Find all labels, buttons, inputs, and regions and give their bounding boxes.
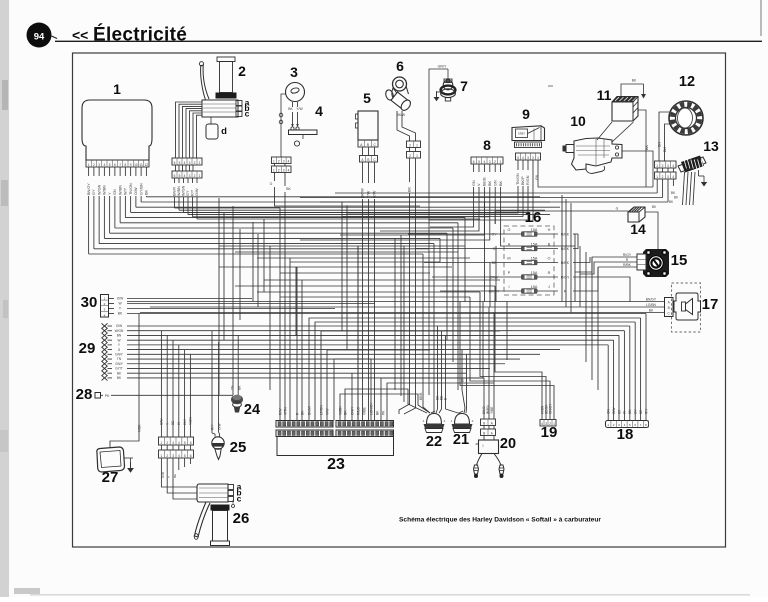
svg-text:BK: BK	[286, 187, 291, 191]
svg-text:11: 11	[597, 87, 612, 103]
svg-text:GY/BN: GY/BN	[139, 183, 143, 195]
svg-text:8: 8	[483, 137, 491, 153]
svg-text:R: R	[548, 271, 551, 275]
svg-text:W/GN: W/GN	[115, 329, 124, 333]
svg-text:GREY: GREY	[518, 132, 526, 136]
svg-text:4: 4	[184, 161, 186, 165]
svg-text:3: 3	[189, 174, 191, 178]
svg-text:4: 4	[184, 174, 186, 178]
svg-text:B: B	[367, 158, 369, 162]
svg-text:BN/R: BN/R	[173, 187, 177, 196]
svg-text:3: 3	[98, 163, 100, 167]
svg-text:BK: BK	[632, 79, 637, 83]
svg-text:H: H	[548, 228, 551, 232]
svg-text:15A: 15A	[531, 285, 538, 289]
svg-text:3: 3	[172, 454, 174, 458]
svg-text:4: 4	[288, 168, 290, 172]
svg-text:Y/W: Y/W	[296, 107, 303, 111]
svg-text:1: 1	[199, 161, 201, 165]
svg-text:BK: BK	[408, 186, 412, 192]
svg-text:7: 7	[460, 78, 468, 94]
svg-text:17: 17	[702, 296, 719, 313]
svg-text:Y/GN: Y/GN	[189, 417, 193, 425]
svg-text:1: 1	[161, 441, 163, 445]
svg-text:2: 2	[662, 164, 664, 168]
svg-text:BE/B: BE/B	[419, 392, 423, 400]
svg-text:G: G	[508, 228, 511, 232]
svg-text:G: G	[616, 207, 619, 211]
svg-text:5: 5	[179, 161, 181, 165]
svg-text:BN/GY: BN/GY	[646, 298, 657, 302]
svg-text:O/W: O/W	[161, 472, 165, 478]
svg-text:23: 23	[327, 456, 345, 473]
svg-text:1: 1	[553, 422, 555, 426]
svg-text:1: 1	[656, 164, 658, 168]
svg-text:3: 3	[527, 156, 529, 160]
svg-text:15: 15	[671, 252, 688, 269]
svg-text:W/GN: W/GN	[97, 184, 101, 195]
svg-text:22: 22	[426, 434, 442, 450]
svg-text:BK: BK	[645, 144, 649, 150]
svg-text:BN/GY: BN/GY	[87, 183, 91, 195]
svg-text:V/BE: V/BE	[362, 407, 366, 415]
svg-text:GN/Y: GN/Y	[115, 362, 124, 366]
svg-text:2: 2	[409, 143, 411, 147]
svg-text:R/BK: R/BK	[623, 263, 632, 267]
svg-text:1: 1	[161, 454, 163, 458]
svg-text:6: 6	[114, 163, 116, 167]
svg-text:W/GN: W/GN	[182, 185, 186, 196]
svg-text:16: 16	[525, 209, 542, 226]
svg-text:Électricité: Électricité	[93, 24, 187, 46]
svg-text:1: 1	[537, 156, 539, 160]
svg-text:GY/T: GY/T	[115, 367, 122, 371]
svg-text:3: 3	[489, 160, 491, 164]
svg-text:O: O	[270, 182, 273, 186]
svg-text:5: 5	[184, 441, 186, 445]
svg-text:3: 3	[667, 175, 669, 179]
svg-text:25: 25	[230, 439, 247, 456]
svg-text:BK: BK	[375, 410, 379, 415]
svg-text:TN/GN: TN/GN	[129, 183, 133, 195]
svg-text:5: 5	[179, 174, 181, 178]
svg-text:R/GY: R/GY	[623, 253, 632, 257]
svg-text:11: 11	[139, 163, 143, 167]
svg-text:6: 6	[190, 441, 192, 445]
svg-text:I: I	[508, 285, 509, 289]
svg-text:10: 10	[570, 113, 586, 129]
svg-text:O/W: O/W	[160, 419, 164, 425]
svg-text:4: 4	[288, 159, 290, 163]
svg-text:BK: BK	[145, 189, 149, 195]
svg-text:6: 6	[174, 161, 176, 165]
svg-text:c: c	[237, 494, 242, 504]
svg-text:5: 5	[109, 163, 111, 167]
svg-text:28: 28	[76, 386, 93, 403]
svg-text:5: 5	[478, 160, 480, 164]
svg-text:GN: GN	[472, 180, 476, 186]
svg-text:W/BN: W/BN	[103, 185, 107, 195]
svg-text:BK/W: BK/W	[397, 113, 405, 117]
svg-text:12: 12	[679, 74, 695, 90]
svg-text:O/W: O/W	[117, 297, 124, 301]
svg-text:<<: <<	[72, 27, 88, 43]
svg-text:9: 9	[130, 163, 132, 167]
svg-text:2: 2	[194, 161, 196, 165]
svg-text:R/GN: R/GN	[526, 175, 530, 185]
svg-text:P: P	[508, 271, 511, 275]
svg-text:20: 20	[500, 436, 516, 452]
svg-text:c: c	[245, 109, 250, 119]
svg-text:29: 29	[79, 340, 96, 357]
svg-text:BK: BK	[658, 141, 662, 147]
svg-text:2: 2	[166, 441, 168, 445]
svg-text:B: B	[367, 143, 369, 147]
svg-text:4: 4	[672, 164, 674, 168]
svg-text:2: 2	[194, 174, 196, 178]
svg-text:GY: GY	[186, 190, 190, 196]
svg-text:4: 4	[522, 156, 524, 160]
svg-text:15A: 15A	[531, 228, 538, 232]
svg-text:O/W: O/W	[195, 188, 199, 196]
svg-text:BE: BE	[171, 421, 175, 425]
svg-text:2: 2	[549, 422, 551, 426]
svg-text:8: 8	[124, 163, 126, 167]
svg-text:O: O	[548, 257, 551, 261]
svg-text:TN/GN: TN/GN	[516, 173, 520, 185]
svg-text:1: 1	[499, 160, 501, 164]
svg-text:10: 10	[134, 163, 138, 167]
svg-text:BK/P: BK/P	[521, 176, 525, 185]
svg-text:W/BN: W/BN	[177, 186, 181, 196]
svg-text:TN: TN	[117, 357, 122, 361]
svg-text:7: 7	[119, 163, 121, 167]
svg-text:3: 3	[189, 161, 191, 165]
svg-text:GY: GY	[92, 189, 96, 195]
svg-text:2: 2	[662, 175, 664, 179]
svg-text:W/BN: W/BN	[118, 185, 122, 195]
svg-text:4: 4	[672, 175, 674, 179]
svg-text:19: 19	[541, 424, 558, 441]
svg-text:5: 5	[363, 90, 371, 106]
svg-text:2: 2	[409, 154, 411, 158]
svg-text:6: 6	[174, 174, 176, 178]
svg-text:BK: BK	[288, 107, 293, 111]
svg-text:GN/Y: GN/Y	[438, 65, 447, 69]
svg-text:d: d	[221, 126, 227, 137]
svg-text:3: 3	[283, 159, 285, 163]
svg-text:O/W: O/W	[134, 187, 138, 195]
svg-text:15A: 15A	[531, 271, 538, 275]
svg-text:LG/BN: LG/BN	[646, 303, 657, 307]
svg-text:1: 1	[273, 159, 275, 163]
svg-text:2: 2	[494, 160, 496, 164]
svg-text:94: 94	[34, 32, 45, 43]
svg-text:2: 2	[238, 63, 246, 79]
svg-text:13: 13	[703, 138, 719, 154]
svg-text:4: 4	[483, 160, 485, 164]
svg-text:W/Y: W/Y	[124, 187, 128, 195]
svg-text:BN: BN	[117, 334, 122, 338]
svg-text:BE/B: BE/B	[483, 177, 487, 186]
svg-text:12: 12	[145, 163, 149, 167]
svg-text:4: 4	[103, 163, 105, 167]
svg-text:M: M	[507, 257, 510, 261]
svg-text:1: 1	[113, 81, 121, 97]
svg-text:6: 6	[473, 160, 475, 164]
svg-text:1: 1	[273, 168, 275, 172]
svg-text:3: 3	[172, 441, 174, 445]
svg-text:W: W	[177, 422, 181, 425]
svg-text:1: 1	[416, 143, 418, 147]
svg-text:R/Y: R/Y	[191, 189, 195, 196]
svg-text:W/Y: W/Y	[183, 418, 187, 425]
svg-text:BK: BK	[663, 146, 667, 152]
svg-text:BK: BK	[499, 180, 503, 186]
svg-text:5: 5	[184, 454, 186, 458]
svg-text:Schéma électrique des Harley D: Schéma électrique des Harley Davidson « …	[399, 517, 601, 524]
svg-text:2: 2	[532, 156, 534, 160]
svg-text:3: 3	[667, 164, 669, 168]
svg-text:24: 24	[244, 402, 260, 418]
svg-text:15A: 15A	[531, 256, 538, 260]
svg-text:4: 4	[178, 441, 180, 445]
svg-text:2: 2	[278, 159, 280, 163]
svg-text:2: 2	[93, 163, 95, 167]
svg-text:3: 3	[290, 64, 298, 80]
svg-text:PK: PK	[381, 410, 385, 415]
svg-text:B: B	[483, 421, 485, 425]
svg-text:21: 21	[453, 432, 469, 448]
svg-text:3: 3	[283, 168, 285, 172]
svg-text:30: 30	[81, 294, 98, 311]
svg-text:4: 4	[315, 103, 323, 119]
svg-text:14: 14	[630, 221, 646, 237]
svg-text:BE: BE	[173, 474, 177, 478]
svg-text:GN: GN	[113, 189, 117, 195]
svg-text:1: 1	[416, 154, 418, 158]
svg-text:J: J	[548, 285, 550, 289]
svg-text:B: B	[483, 431, 485, 435]
svg-text:1: 1	[656, 175, 658, 179]
svg-text:3: 3	[545, 422, 547, 426]
svg-text:4: 4	[541, 422, 543, 426]
svg-text:2: 2	[166, 454, 168, 458]
svg-text:1: 1	[199, 174, 201, 178]
svg-text:5: 5	[517, 156, 519, 160]
svg-text:PK: PK	[105, 394, 110, 398]
svg-text:2: 2	[278, 168, 280, 172]
svg-text:GN: GN	[493, 180, 497, 186]
svg-text:26: 26	[233, 510, 250, 527]
svg-text:6: 6	[396, 58, 404, 74]
svg-text:Y: Y	[167, 476, 171, 478]
svg-text:W: W	[117, 338, 120, 342]
svg-text:4: 4	[178, 454, 180, 458]
svg-text:BK: BK	[488, 180, 492, 186]
svg-text:9: 9	[522, 106, 530, 122]
svg-text:B: B	[668, 306, 670, 310]
svg-text:6: 6	[190, 454, 192, 458]
svg-text:GN/Y: GN/Y	[115, 353, 124, 357]
svg-text:1: 1	[88, 163, 90, 167]
svg-text:O/W: O/W	[116, 324, 122, 328]
svg-text:18: 18	[617, 426, 634, 443]
